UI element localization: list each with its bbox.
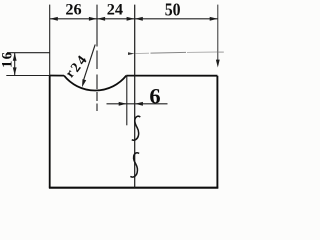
arrows at x=97 <box>89 17 97 21</box>
faint reference line (segment c) <box>187 51 218 53</box>
16 dim line x=14.7 <box>14 53 16 76</box>
svg-text:6: 6 <box>149 84 160 109</box>
6 dim left arrow (outside, pointing right) <box>119 102 127 106</box>
outline: left edge <box>49 76 51 188</box>
16 dim: bottom extension line y=75.5 <box>6 75 49 77</box>
S break symbol 2 <box>130 153 139 177</box>
6 dim right arrow (outside, pointing left) <box>135 102 143 106</box>
16 dim arrows <box>13 53 17 61</box>
svg-text:24: 24 <box>107 0 123 19</box>
svg-text:26: 26 <box>65 0 81 18</box>
long extension/centerline x=134.7 <box>134 5 136 188</box>
outline: top edge left portion <box>50 75 64 77</box>
faint reference line y=52.6 right (segment a) <box>136 52 150 54</box>
outline: bottom edge <box>49 187 218 189</box>
down arrowhead on right extension <box>216 60 220 68</box>
extension line x=49.7 (left) <box>49 5 51 76</box>
arrows at x=134.7 <box>127 17 135 21</box>
r24 leader line <box>83 45 95 82</box>
S break symbol 1 <box>132 116 141 140</box>
notch arc r24 <box>64 76 126 91</box>
extension line x=217.8 (right, ends with down arrow) <box>217 5 219 61</box>
outline: right edge <box>216 76 218 189</box>
arrow at x=49.7 pointing left <box>50 17 58 21</box>
svg-text:6: 6 <box>0 52 15 59</box>
arrow at x=217.8 pointing right <box>210 17 218 21</box>
svg-text:1: 1 <box>0 61 15 68</box>
outline: top edge right portion <box>126 75 217 77</box>
top dimension line y=18.8 <box>50 18 218 20</box>
small arrow into S-line on faint line <box>128 52 135 55</box>
16 dim: top extension line y=52.7 <box>7 52 50 54</box>
6 dim line y=103.8 <box>107 103 168 105</box>
dashed centerline of arc x=97 <box>96 5 98 111</box>
faint reference line (segment b, darker) <box>151 51 187 54</box>
r24 leader arrowhead <box>82 79 86 87</box>
svg-text:50: 50 <box>165 0 181 20</box>
6 dim extension x=126.8 <box>126 77 128 126</box>
faint overshoot dash right <box>218 51 224 53</box>
